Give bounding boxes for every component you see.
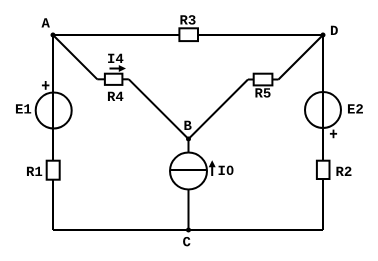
wire stub from R4 right — [122, 78, 128, 80]
node C — [186, 228, 191, 233]
current label I0 — [219, 166, 234, 176]
label D — [331, 26, 338, 35]
wire A down through E1 — [52, 35, 54, 161]
wire D down through E2 — [322, 35, 324, 161]
node D — [321, 33, 326, 38]
wire D diagonal to R5 — [279, 35, 324, 80]
plus sign E2 — [330, 133, 337, 135]
wire R1 to bottom — [52, 180, 54, 230]
current source I0 bar — [170, 169, 207, 171]
wire R4 diagonal to B — [129, 79, 189, 139]
current arrow I4 — [110, 68, 121, 70]
resistor R3 — [179, 28, 198, 41]
label E1 — [16, 104, 31, 113]
current source I0 — [170, 153, 207, 190]
current arrow I0 — [211, 166, 213, 177]
wire A to R3 (top left horizontal) — [53, 34, 180, 36]
resistor R5 — [254, 74, 273, 86]
resistor R4 — [105, 74, 123, 85]
wire A diagonal to R4 — [53, 35, 97, 79]
bottom wire — [53, 229, 323, 231]
wire B down to I0 — [188, 139, 190, 153]
plus sign E1 — [42, 84, 50, 86]
voltage source E2 — [305, 92, 341, 128]
label C — [183, 237, 190, 247]
wire R2 to bottom — [322, 179, 324, 230]
voltage source E1 — [36, 93, 72, 129]
label R1 — [27, 167, 42, 176]
wire I0 to C — [188, 190, 190, 231]
resistor R2 — [317, 161, 330, 179]
node A — [51, 33, 56, 38]
wire stub from R5 left — [248, 79, 254, 81]
wire R3 to D (top right horizontal) — [198, 34, 323, 36]
label B — [184, 121, 191, 130]
current label I4 — [108, 54, 123, 63]
wire stub to R5 right — [272, 79, 278, 81]
label R4 — [108, 92, 123, 101]
node B — [186, 137, 191, 142]
wire R5 diagonal to B — [189, 80, 249, 140]
resistor R1 — [47, 161, 60, 180]
label R2 — [336, 167, 351, 176]
label A — [42, 18, 50, 27]
wire stub to R4 left — [97, 78, 105, 80]
label E2 — [348, 104, 363, 113]
label R3 — [180, 15, 195, 25]
label R5 — [255, 88, 270, 97]
